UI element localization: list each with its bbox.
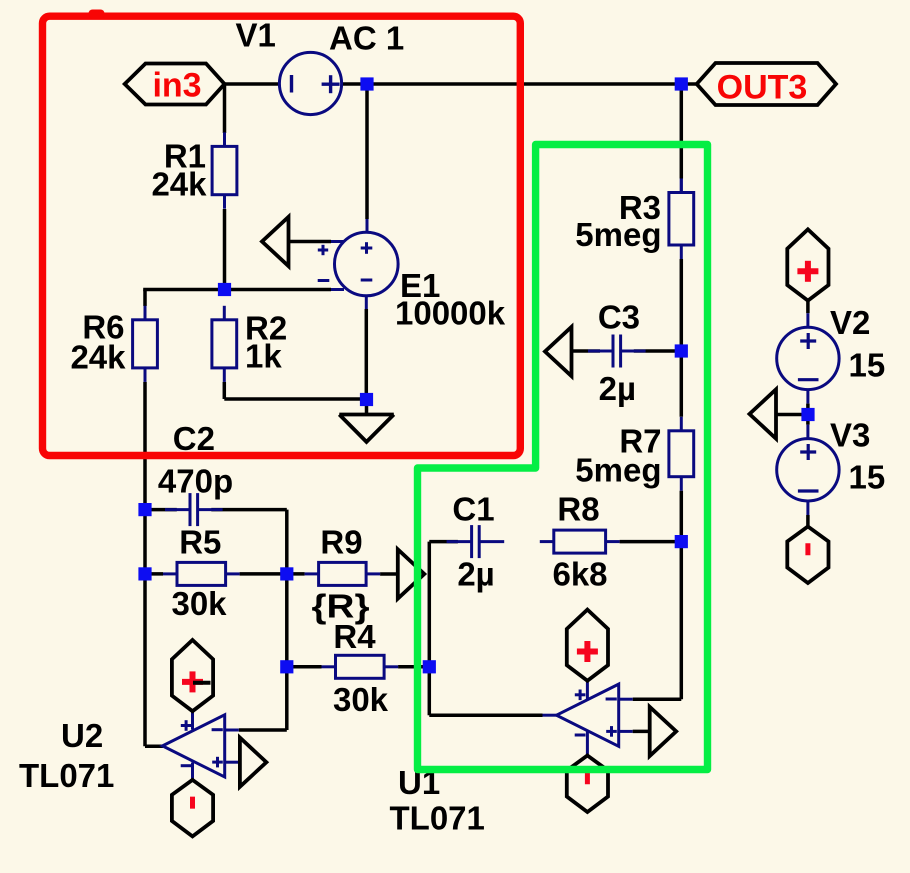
- power flag V+ above U1: [567, 610, 608, 681]
- svg-text:R5: R5: [179, 524, 221, 561]
- wire R5 right to node: [240, 572, 287, 576]
- svg-text:TL071: TL071: [19, 757, 114, 794]
- wire R5 left: [145, 572, 163, 576]
- svg-text:U2: U2: [61, 717, 103, 754]
- op-amp U2: [163, 715, 225, 777]
- power flag V+ above V2: [787, 229, 828, 300]
- wire C3 right to node: [634, 349, 682, 353]
- svg-text:V1: V1: [236, 17, 276, 54]
- resistor R9: [305, 562, 381, 585]
- power flag V- below U1: [567, 756, 608, 813]
- wire E1 plus input: [289, 240, 332, 244]
- wire R1 to node A: [223, 209, 227, 290]
- power flag V- below U2: [172, 780, 213, 837]
- capacitor C2: [165, 493, 223, 526]
- junction node C2 left: [138, 503, 151, 516]
- wire V1 to OUT3: [342, 82, 697, 86]
- junction node V1-E1-OUT: [360, 77, 373, 90]
- svg-text:6k8: 6k8: [552, 556, 607, 593]
- wire in3 down to R1: [223, 84, 227, 133]
- wire C2/R5 node rail down to U2 inverting input: [285, 510, 289, 730]
- op-amp U1: [557, 684, 619, 746]
- svg-text:5meg: 5meg: [575, 452, 661, 489]
- wire V3 bottom to minus flag: [806, 501, 809, 515]
- black tick inside U2 plus flag: [193, 681, 211, 685]
- wire OUT3 down to R3: [680, 84, 684, 179]
- voltage source V1: [279, 52, 341, 114]
- arrow flag at C3: [545, 327, 572, 376]
- svg-text:V3: V3: [830, 417, 870, 454]
- junction node V2-V3: [801, 408, 814, 421]
- svg-text:V2: V2: [830, 304, 870, 341]
- net flag OUT3: [697, 63, 836, 107]
- wire node A horizontal to E1 minus input: [143, 288, 331, 292]
- power flag V+ above U2: [172, 640, 213, 711]
- dependent source E1: [318, 232, 398, 296]
- svg-text:C1: C1: [452, 491, 494, 528]
- resistor R1: [212, 132, 237, 208]
- wire U1 non-inverting input to arrow: [619, 730, 633, 733]
- wire U2 supply bottom: [191, 763, 194, 781]
- arrow flag at E1 input: [262, 217, 289, 266]
- svg-text:R4: R4: [333, 618, 376, 655]
- wire R8 node down to U1 inverting input: [680, 542, 684, 700]
- svg-text:R8: R8: [557, 491, 599, 528]
- wire U2 non-inverting input to arrow: [225, 761, 239, 764]
- svg-text:OUT3: OUT3: [717, 69, 808, 107]
- junction node R1-R2-R6: [218, 283, 231, 296]
- svg-text:TL071: TL071: [390, 800, 485, 837]
- resistor R6: [133, 306, 158, 382]
- svg-text:10000k: 10000k: [395, 295, 506, 332]
- wire node A down to R6: [143, 290, 147, 307]
- wire V2 top to plus flag: [806, 301, 810, 314]
- arrow flag at V2V3 node: [750, 389, 777, 438]
- svg-text:30k: 30k: [171, 585, 227, 622]
- arrow flag after R9: [398, 549, 425, 598]
- junction node R4-C1-U1out: [423, 660, 436, 673]
- red nub on top edge: [89, 10, 105, 19]
- wire C2 left: [145, 508, 177, 512]
- wire R2 bottom to ground node: [223, 382, 227, 399]
- wire U2 supply top: [191, 711, 194, 729]
- voltage source V3: [777, 439, 839, 501]
- wire R4 right to C1 node: [398, 665, 429, 669]
- wire V2 bottom to mid node: [806, 390, 809, 404]
- resistor R8: [540, 530, 620, 553]
- junction node OUT3: [675, 77, 688, 90]
- resistor R5: [163, 562, 240, 585]
- resistor R3: [669, 179, 694, 260]
- wire R3 to C3 node to R7: [680, 259, 684, 417]
- svg-text:5meg: 5meg: [575, 216, 661, 253]
- wire ground stub: [365, 400, 369, 415]
- capacitor C3: [588, 335, 646, 368]
- resistor R7: [669, 417, 694, 491]
- wire U1 supply top: [586, 681, 589, 699]
- svg-text:R9: R9: [320, 524, 362, 561]
- junction node R3-C3-R7: [675, 344, 688, 357]
- svg-text:15: 15: [849, 459, 886, 496]
- arrow flag at U2 non-inverting input: [240, 738, 267, 787]
- svg-text:30k: 30k: [333, 681, 389, 718]
- red highlight rectangle: [43, 16, 521, 455]
- svg-text:in3: in3: [152, 67, 201, 105]
- resistor R4: [322, 655, 399, 678]
- wire U1 supply bottom: [586, 732, 589, 756]
- wire R7 to R8 node: [680, 491, 684, 542]
- wire C3 left to arrow flag: [572, 349, 601, 353]
- ground: [339, 415, 394, 442]
- wire C2 right over to R5 node: [211, 508, 286, 512]
- svg-text:2µ: 2µ: [457, 556, 494, 593]
- resistor R2: [212, 306, 237, 382]
- svg-text:C2: C2: [173, 420, 215, 457]
- junction node R4 left: [280, 660, 293, 673]
- wire R8 right to node: [620, 540, 682, 544]
- svg-text:24k: 24k: [151, 166, 207, 203]
- wire R9 right to arrow: [380, 572, 398, 576]
- wire R4 left: [287, 665, 322, 669]
- svg-text:15: 15: [849, 347, 886, 384]
- junction node R5 left: [138, 567, 151, 580]
- svg-text:24k: 24k: [70, 339, 126, 376]
- wire left rail R6 to U2 output: [143, 382, 147, 746]
- capacitor C1: [447, 525, 505, 558]
- svg-text:2µ: 2µ: [599, 370, 636, 407]
- voltage source V2: [777, 327, 839, 389]
- wire C1 left down to U1 output: [429, 540, 458, 544]
- svg-text:AC 1: AC 1: [329, 20, 404, 57]
- wire E1 bottom to ground node: [365, 296, 368, 309]
- wire junction to E1 top: [365, 84, 369, 219]
- junction node R5-R9-C2: [280, 567, 293, 580]
- wire mid node to V3 top: [806, 415, 810, 425]
- svg-text:470p: 470p: [158, 463, 233, 500]
- green highlight polygon: [418, 145, 708, 770]
- wire V2V3 mid node to arrow: [776, 413, 802, 417]
- wire node to R9: [287, 572, 305, 576]
- svg-text:C3: C3: [598, 299, 640, 336]
- power flag V- below V3: [787, 527, 828, 584]
- svg-text:1k: 1k: [245, 338, 282, 375]
- arrow flag at U1 non-inverting input: [650, 707, 677, 756]
- junction node R7-R8: [675, 535, 688, 548]
- junction node E1 ground: [360, 393, 373, 406]
- net flag in3: [125, 64, 225, 105]
- wire in3 to V1: [225, 82, 280, 86]
